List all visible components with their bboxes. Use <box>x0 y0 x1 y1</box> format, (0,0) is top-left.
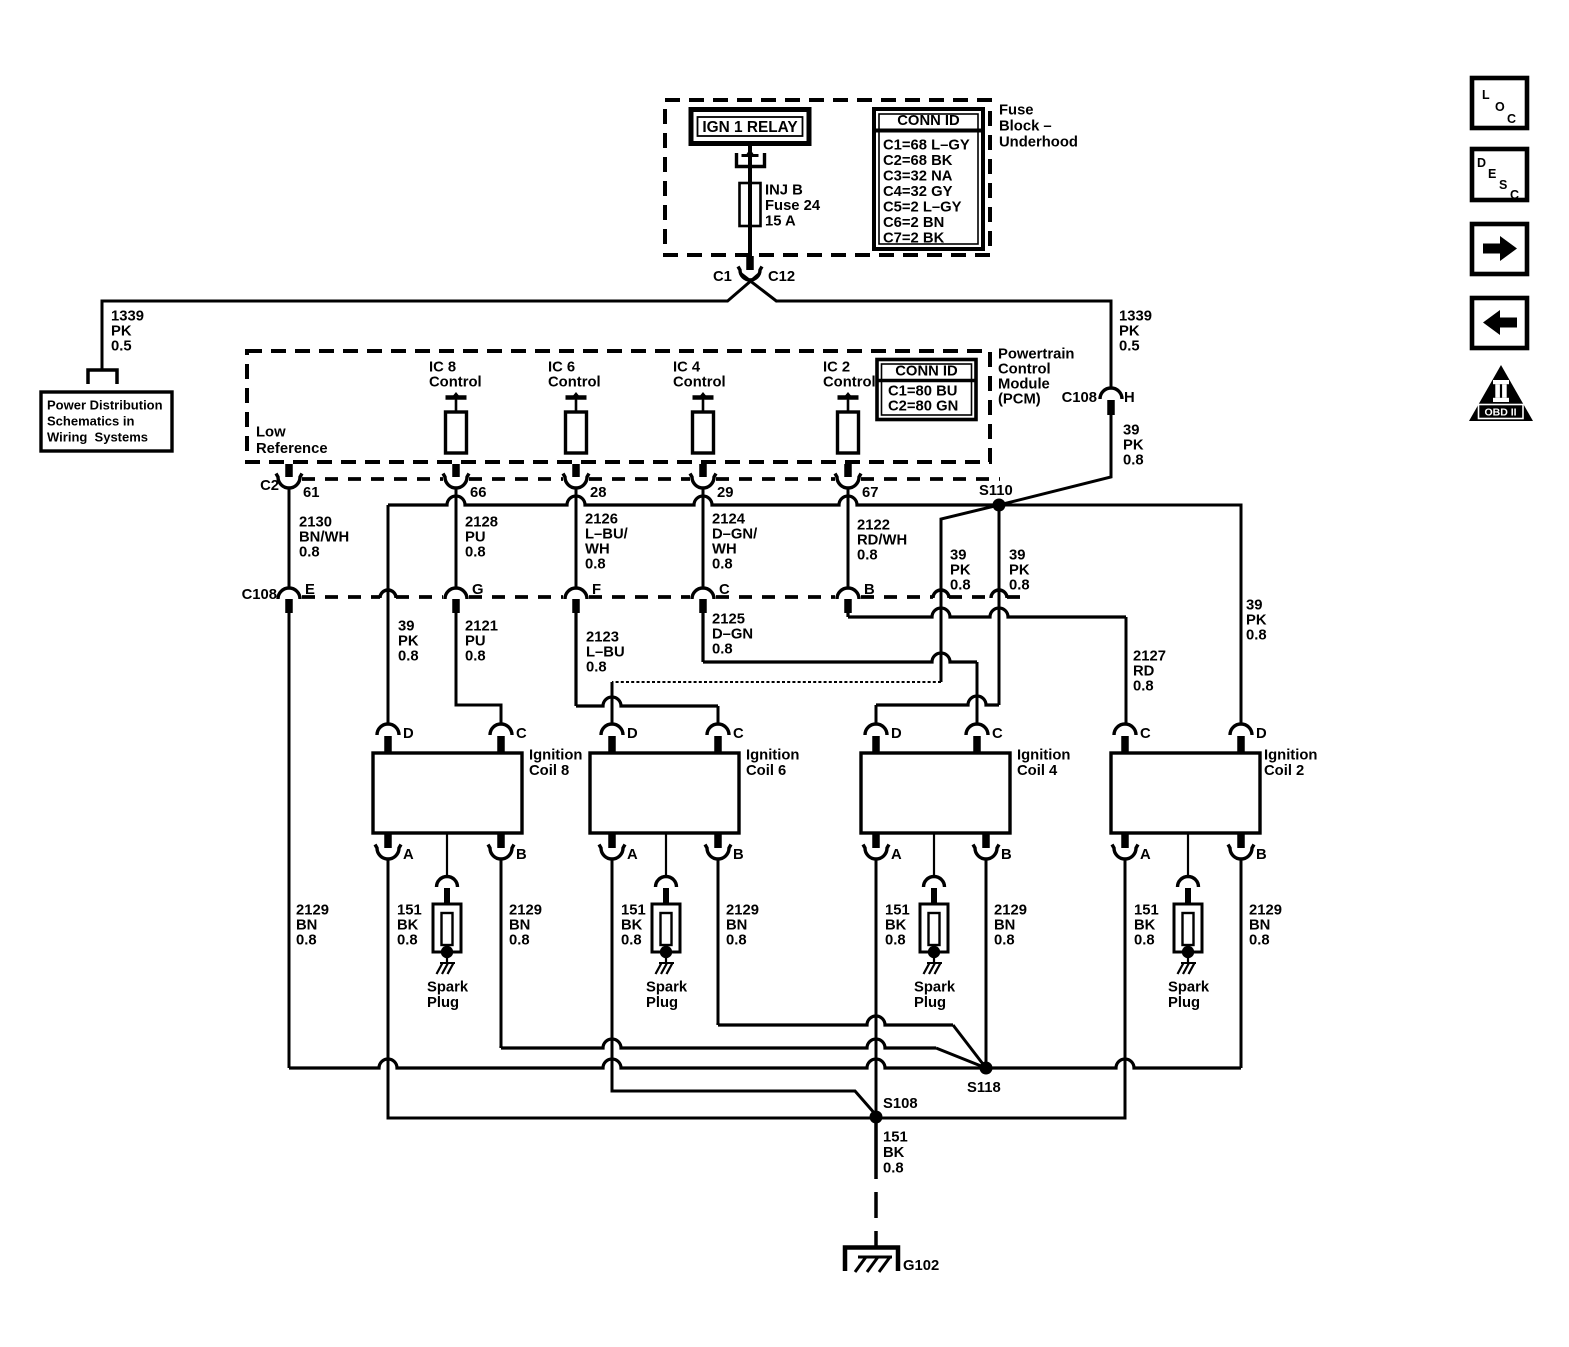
svg-text:2129: 2129 <box>1249 903 1282 919</box>
hop on C108 row at S110 mid branch <box>991 590 1007 598</box>
svg-text:IC 6: IC 6 <box>548 360 575 376</box>
wire 2129 BN rail through S118 <box>289 1059 1241 1068</box>
svg-text:A: A <box>891 847 902 863</box>
svg-text:Low: Low <box>256 425 286 441</box>
svg-text:E: E <box>305 582 315 598</box>
wire 39 PK rail <box>388 496 999 505</box>
svg-text:A: A <box>403 847 414 863</box>
svg-text:Coil 2: Coil 2 <box>1264 763 1304 779</box>
wire 39 PK S110 branch left <box>941 505 999 682</box>
svg-text:A: A <box>1140 847 1151 863</box>
svg-text:2129: 2129 <box>726 903 759 919</box>
svg-text:0.8: 0.8 <box>398 649 419 665</box>
splice S108 <box>870 1096 918 1124</box>
svg-text:C: C <box>1510 188 1519 202</box>
dashed connector row C2 <box>302 477 1000 481</box>
wire 39 PK from C108 H to S110 <box>999 415 1111 505</box>
wire coil2 C drop <box>1125 617 1128 723</box>
svg-text:66: 66 <box>470 485 486 501</box>
svg-text:2121: 2121 <box>465 619 498 635</box>
wire 151 BK coil6 A to S108 <box>612 1089 876 1115</box>
svg-text:G102: G102 <box>903 1258 939 1274</box>
connector C108 pin H <box>1062 388 1135 415</box>
svg-text:Ignition: Ignition <box>529 748 582 764</box>
svg-text:2127: 2127 <box>1133 649 1166 665</box>
svg-text:0.8: 0.8 <box>621 933 642 949</box>
coil 4 pin D top-left <box>865 724 902 753</box>
driver IC 8 output symbol <box>446 392 467 453</box>
coil 6 pin A bottom-left <box>599 833 638 863</box>
svg-text:0.8: 0.8 <box>1246 628 1267 644</box>
wire 39 PK to coil4 D <box>876 696 999 705</box>
wire coil4 A down <box>875 860 878 1115</box>
svg-text:D: D <box>1256 726 1267 742</box>
svg-text:L–BU: L–BU <box>586 645 625 661</box>
svg-text:0.8: 0.8 <box>1133 679 1154 695</box>
svg-text:2129: 2129 <box>509 903 542 919</box>
wire coil6 A down <box>611 860 614 1089</box>
svg-text:PK: PK <box>111 324 132 340</box>
wire 1339 PK right rail <box>776 301 1111 388</box>
icon LOC <box>1472 78 1527 128</box>
svg-text:S108: S108 <box>883 1096 918 1112</box>
wire coil6 B down <box>717 860 720 1023</box>
relay terminal pin <box>737 143 765 168</box>
svg-text:Spark: Spark <box>1168 980 1210 996</box>
spark plug 4 <box>920 877 948 975</box>
wire coil2 B join <box>1240 1066 1243 1068</box>
driver IC 6 output symbol <box>566 392 587 453</box>
coil 6 pin B bottom-right <box>705 833 744 863</box>
svg-text:0.8: 0.8 <box>883 1161 904 1177</box>
svg-text:H: H <box>1124 390 1135 406</box>
svg-text:Control: Control <box>673 375 726 391</box>
svg-text:BK: BK <box>883 1145 905 1161</box>
svg-text:PK: PK <box>398 634 419 650</box>
wire 2129 BN coil8 B to S118 <box>501 1039 936 1048</box>
wire coil4 C drop <box>976 662 979 723</box>
svg-text:F: F <box>592 582 601 598</box>
svg-text:2125: 2125 <box>712 612 745 628</box>
svg-text:BN: BN <box>726 918 747 934</box>
svg-text:2129: 2129 <box>296 903 329 919</box>
svg-text:Control: Control <box>998 362 1051 378</box>
coil 4 pin C top-right <box>966 724 1003 753</box>
svg-text:C2: C2 <box>260 478 279 494</box>
svg-text:B: B <box>1001 847 1012 863</box>
PCM dashed box <box>247 351 990 462</box>
connector C2 pin 28 <box>563 464 606 501</box>
svg-text:1339: 1339 <box>1119 309 1152 325</box>
wire coil2 B down <box>1240 860 1243 1066</box>
svg-text:C: C <box>719 582 730 598</box>
ignition coil 4 box <box>861 753 1010 833</box>
svg-text:B: B <box>516 847 527 863</box>
svg-text:39: 39 <box>950 548 966 564</box>
svg-text:PU: PU <box>465 530 486 546</box>
svg-text:Schematics in: Schematics in <box>47 414 134 429</box>
coil 8 pin C top-right <box>490 724 527 753</box>
svg-text:CONN ID: CONN ID <box>895 364 958 380</box>
svg-text:0.8: 0.8 <box>994 933 1015 949</box>
svg-text:151: 151 <box>621 903 646 919</box>
svg-text:C7=2 BK: C7=2 BK <box>883 231 945 247</box>
wire 2127 RD B to coil2 C <box>848 608 1126 617</box>
svg-text:BN: BN <box>509 918 530 934</box>
icon OBD II triangle <box>1469 365 1533 421</box>
spark plug 6 <box>652 877 680 975</box>
svg-text:BK: BK <box>621 918 643 934</box>
svg-text:0.8: 0.8 <box>585 557 606 573</box>
svg-text:C4=32 GY: C4=32 GY <box>883 184 953 200</box>
wire 39 PK to coil6 D <box>611 682 614 723</box>
svg-text:RD/WH: RD/WH <box>857 533 907 549</box>
ignition coil 6 box <box>590 753 739 833</box>
svg-text:Plug: Plug <box>1168 995 1200 1011</box>
svg-text:BK: BK <box>397 918 419 934</box>
svg-text:151: 151 <box>883 1130 908 1146</box>
svg-text:C108: C108 <box>1062 390 1097 406</box>
svg-text:Coil 6: Coil 6 <box>746 763 786 779</box>
svg-text:Ignition: Ignition <box>1264 748 1317 764</box>
driver IC 2 output symbol <box>838 392 859 453</box>
svg-text:Ignition: Ignition <box>746 748 799 764</box>
wire 39 PK S110 branch mid <box>998 505 1001 705</box>
svg-text:BN: BN <box>296 918 317 934</box>
wire pin 66 down <box>455 489 458 588</box>
svg-text:Powertrain: Powertrain <box>998 347 1074 363</box>
svg-text:B: B <box>1256 847 1267 863</box>
hop on C108 row at 39PK wire <box>380 590 396 598</box>
svg-text:0.8: 0.8 <box>509 933 530 949</box>
coil 6 pin D top-left <box>601 724 638 753</box>
svg-text:0.5: 0.5 <box>1119 339 1140 355</box>
svg-text:C1=68 L–GY: C1=68 L–GY <box>883 138 970 154</box>
svg-text:CONN ID: CONN ID <box>897 113 960 129</box>
svg-text:C: C <box>733 726 744 742</box>
svg-text:D–GN/: D–GN/ <box>712 527 757 543</box>
coil 4 pin B bottom-right <box>973 833 1012 863</box>
svg-text:67: 67 <box>862 485 878 501</box>
relay box IGN 1 RELAY <box>691 110 809 144</box>
wire coil2 A down <box>1124 860 1127 1116</box>
svg-text:Plug: Plug <box>914 995 946 1011</box>
icon arrow back <box>1472 298 1527 348</box>
svg-text:0.8: 0.8 <box>857 548 878 564</box>
svg-text:BK: BK <box>1134 918 1156 934</box>
svg-text:29: 29 <box>717 485 733 501</box>
svg-text:WH: WH <box>585 542 610 558</box>
wire coil8 A down <box>387 860 390 1116</box>
wire 2123 L-BU F to coil6 C <box>576 613 718 706</box>
wire 39 PK dotted segment <box>612 681 941 683</box>
wire 39 PK to coil8 D <box>387 505 390 723</box>
svg-text:2122: 2122 <box>857 518 890 534</box>
coil 4 spark plug wire <box>933 833 935 876</box>
ignition coil 8 box <box>373 753 522 833</box>
svg-text:Underhood: Underhood <box>999 135 1078 151</box>
svg-text:INJ B: INJ B <box>765 183 803 199</box>
svg-text:28: 28 <box>590 485 606 501</box>
svg-text:Wiring Systems: Wiring Systems <box>47 430 148 445</box>
fuse block dashed box <box>665 100 990 255</box>
svg-text:39: 39 <box>1009 548 1025 564</box>
conn id table PCM <box>877 360 976 420</box>
svg-text:L–BU/: L–BU/ <box>585 527 628 543</box>
wire coil8 B down <box>500 860 503 1046</box>
svg-text:C: C <box>516 726 527 742</box>
svg-text:0.8: 0.8 <box>465 649 486 665</box>
svg-text:Spark: Spark <box>914 980 956 996</box>
svg-text:61: 61 <box>303 485 319 501</box>
svg-text:C5=2 L–GY: C5=2 L–GY <box>883 200 962 216</box>
svg-text:PK: PK <box>1119 324 1140 340</box>
svg-text:1339: 1339 <box>111 309 144 325</box>
wire diag coil6B to S118 <box>953 1025 986 1068</box>
svg-text:0.8: 0.8 <box>885 933 906 949</box>
wire 2121 PU G to coil8 C <box>456 613 501 723</box>
coil 8 pin D top-left <box>377 724 414 753</box>
svg-text:E: E <box>1488 167 1496 181</box>
svg-text:D: D <box>403 726 414 742</box>
svg-text:IC 2: IC 2 <box>823 360 850 376</box>
svg-text:Control: Control <box>548 375 601 391</box>
svg-text:Fuse 24: Fuse 24 <box>765 198 821 214</box>
svg-text:0.8: 0.8 <box>1134 933 1155 949</box>
off-page connector bracket <box>88 370 117 384</box>
coil 2 pin B bottom-right <box>1228 833 1267 863</box>
svg-text:C108: C108 <box>242 587 277 603</box>
svg-text:B: B <box>864 582 875 598</box>
svg-text:PK: PK <box>950 563 971 579</box>
svg-text:Module: Module <box>998 377 1050 393</box>
wire 2125 D-GN C to coil4 C <box>703 613 977 662</box>
svg-text:PK: PK <box>1246 613 1267 629</box>
svg-text:G: G <box>472 582 484 598</box>
svg-text:0.8: 0.8 <box>1009 578 1030 594</box>
wire 151 BK to ground <box>874 1117 878 1179</box>
svg-text:C2=68 BK: C2=68 BK <box>883 153 953 169</box>
svg-text:151: 151 <box>885 903 910 919</box>
svg-text:2124: 2124 <box>712 512 746 528</box>
wire coil4 B down <box>985 860 988 1066</box>
icon arrow next <box>1472 224 1527 274</box>
coil 4 pin A bottom-left <box>863 833 902 863</box>
svg-text:39: 39 <box>398 619 414 635</box>
wire pin 61 down <box>288 489 291 588</box>
svg-text:WH: WH <box>712 542 737 558</box>
hop on C108 row at S110 left branch <box>933 590 949 598</box>
svg-text:0.8: 0.8 <box>726 933 747 949</box>
coil 8 pin B bottom-right <box>488 833 527 863</box>
wire pin 28 down <box>575 489 578 588</box>
svg-text:S: S <box>1499 178 1507 192</box>
spark plug 2 <box>1174 877 1202 975</box>
svg-text:S118: S118 <box>967 1080 1001 1096</box>
wire coil4 D drop <box>875 705 878 723</box>
wire 151 BK rail S108 <box>388 1116 1125 1118</box>
svg-text:PU: PU <box>465 634 486 650</box>
svg-text:15 A: 15 A <box>765 214 796 230</box>
coil 2 pin A bottom-left <box>1112 833 1151 863</box>
connector C108 pin B <box>837 582 875 613</box>
coil 6 pin C top-right <box>707 724 744 753</box>
svg-text:2128: 2128 <box>465 515 498 531</box>
svg-text:Spark: Spark <box>646 980 688 996</box>
coil 2 pin C top-left <box>1114 724 1151 753</box>
connector C108 pin F <box>565 582 601 613</box>
svg-text:BN: BN <box>994 918 1015 934</box>
svg-text:Plug: Plug <box>427 995 459 1011</box>
connector C108 pin G <box>445 582 484 613</box>
icon DESC <box>1472 149 1527 202</box>
svg-text:C1: C1 <box>713 269 732 285</box>
svg-text:C6=2 BN: C6=2 BN <box>883 215 944 231</box>
svg-text:C: C <box>1140 726 1151 742</box>
svg-text:D: D <box>891 726 902 742</box>
svg-text:39: 39 <box>1246 598 1262 614</box>
coil 8 pin A bottom-left <box>375 833 414 863</box>
svg-text:RD: RD <box>1133 664 1155 680</box>
svg-text:C12: C12 <box>768 269 795 285</box>
wire pin 67 down <box>847 489 850 588</box>
connector C2 pin 66 <box>443 464 486 501</box>
svg-text:IC 4: IC 4 <box>673 360 701 376</box>
svg-text:Fuse: Fuse <box>999 103 1034 119</box>
wire dashed to ground <box>874 1192 878 1246</box>
coil 8 spark plug wire <box>446 833 448 876</box>
svg-text:2126: 2126 <box>585 512 618 528</box>
svg-text:(PCM): (PCM) <box>998 392 1041 408</box>
svg-text:Spark: Spark <box>427 980 469 996</box>
wire split X below C1/C12 <box>727 273 777 302</box>
svg-text:0.8: 0.8 <box>299 545 320 561</box>
spark plug 8 <box>433 877 461 975</box>
wire diag coil8B to S118 <box>936 1048 986 1068</box>
wire 1339 PK left rail <box>102 301 728 369</box>
svg-text:L: L <box>1482 88 1490 102</box>
svg-text:OBD II: OBD II <box>1484 407 1516 419</box>
svg-text:0.8: 0.8 <box>1123 453 1144 469</box>
connector C2 pin 29 <box>690 464 733 501</box>
wire 2129 BN coil6 B to S118 <box>718 1016 953 1025</box>
svg-text:0.8: 0.8 <box>586 660 607 676</box>
svg-text:D: D <box>1477 156 1486 170</box>
svg-text:Control: Control <box>823 375 876 391</box>
splice S118 <box>967 1062 1001 1097</box>
svg-text:A: A <box>627 847 638 863</box>
svg-text:0.8: 0.8 <box>712 642 733 658</box>
svg-text:2130: 2130 <box>299 515 332 531</box>
wire 39 PK rail to coil2 D <box>999 505 1241 723</box>
wire 2129 BN E down <box>288 613 291 1068</box>
svg-text:Coil 4: Coil 4 <box>1017 763 1058 779</box>
driver IC 4 output symbol <box>693 392 714 453</box>
svg-text:Block –: Block – <box>999 119 1052 135</box>
svg-text:0.8: 0.8 <box>397 933 418 949</box>
svg-text:151: 151 <box>1134 903 1159 919</box>
connector C108 pin C <box>692 582 730 613</box>
ignition coil 2 box <box>1111 753 1260 833</box>
wire pin 29 down <box>702 489 705 588</box>
svg-text:0.8: 0.8 <box>465 545 486 561</box>
coil 2 spark plug wire <box>1187 833 1189 876</box>
power distribution schematics box <box>41 392 172 451</box>
coil 2 pin D top-right <box>1230 724 1267 753</box>
svg-text:0.8: 0.8 <box>1249 933 1270 949</box>
svg-text:39: 39 <box>1123 423 1139 439</box>
wire coil6 C drop <box>717 706 720 723</box>
svg-text:D–GN: D–GN <box>712 627 753 643</box>
svg-text:0.8: 0.8 <box>712 557 733 573</box>
svg-text:O: O <box>1495 100 1505 114</box>
svg-text:0.8: 0.8 <box>950 578 971 594</box>
svg-text:Ignition: Ignition <box>1017 748 1070 764</box>
ground G102 <box>845 1248 898 1273</box>
connector C1/C12 <box>713 256 795 285</box>
conn id table fuse block <box>874 109 983 249</box>
coil 6 spark plug wire <box>665 833 667 876</box>
svg-text:BN/WH: BN/WH <box>299 530 349 546</box>
svg-text:D: D <box>627 726 638 742</box>
svg-text:C2=80 GN: C2=80 GN <box>888 399 958 415</box>
svg-text:0.5: 0.5 <box>111 339 132 355</box>
svg-text:PK: PK <box>1123 438 1144 454</box>
svg-text:IC 8: IC 8 <box>429 360 456 376</box>
svg-text:S110: S110 <box>979 483 1013 499</box>
svg-text:C: C <box>992 726 1003 742</box>
connector C108 pin E <box>278 582 315 613</box>
svg-text:Coil 8: Coil 8 <box>529 763 569 779</box>
splice S110 <box>979 483 1013 512</box>
svg-text:C3=32 NA: C3=32 NA <box>883 169 953 185</box>
svg-text:2123: 2123 <box>586 630 619 646</box>
svg-text:Plug: Plug <box>646 995 678 1011</box>
svg-text:B: B <box>733 847 744 863</box>
svg-text:BK: BK <box>885 918 907 934</box>
svg-text:0.8: 0.8 <box>296 933 317 949</box>
dashed connector row C108 <box>302 595 1020 599</box>
svg-text:Power Distribution: Power Distribution <box>47 397 163 412</box>
fuse INJ B Fuse 24 15 A <box>740 168 761 256</box>
svg-text:BN: BN <box>1249 918 1270 934</box>
svg-text:2129: 2129 <box>994 903 1027 919</box>
svg-text:C: C <box>1507 112 1516 126</box>
svg-text:151: 151 <box>397 903 422 919</box>
svg-text:C1=80 BU: C1=80 BU <box>888 384 958 400</box>
svg-text:PK: PK <box>1009 563 1030 579</box>
connector C2 pin 67 <box>835 464 878 501</box>
connector C2 pin 61 <box>276 464 319 501</box>
svg-text:Reference: Reference <box>256 441 328 457</box>
svg-text:IGN 1 RELAY: IGN 1 RELAY <box>702 119 798 136</box>
svg-text:Control: Control <box>429 375 482 391</box>
